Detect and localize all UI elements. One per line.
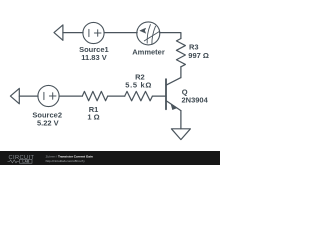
svg-text:http://circuitlab.com/c8hnu7y: http://circuitlab.com/c8hnu7y	[46, 159, 86, 163]
svg-text:LAB: LAB	[22, 159, 30, 163]
ground	[171, 129, 190, 140]
wire Ammeter to corner	[160, 33, 181, 39]
svg-text:5.22 V: 5.22 V	[37, 119, 59, 128]
svg-text:1 Ω: 1 Ω	[87, 113, 99, 122]
wire emitter to ground	[180, 111, 182, 129]
transistor Q (NPN 2N3904)	[165, 79, 167, 109]
svg-text:5.5 kΩ: 5.5 kΩ	[125, 81, 152, 90]
wire Source1 to Ammeter	[104, 32, 137, 34]
voltage source Source2	[38, 85, 59, 106]
ammeter AM1	[137, 22, 160, 45]
svg-text:997 Ω: 997 Ω	[188, 51, 209, 60]
svg-text:Ammeter: Ammeter	[132, 48, 165, 57]
wire Source2 to R1	[59, 95, 82, 97]
footer bar	[0, 151, 220, 165]
svg-text:2N3904: 2N3904	[182, 95, 209, 104]
resistor R1	[82, 91, 107, 100]
label Source1	[32, 45, 164, 128]
wire R2 to base	[152, 95, 166, 97]
svg-text:Zubren / Transistor Current Ga: Zubren / Transistor Current Gain	[46, 155, 93, 159]
wire flag1 to Source1	[63, 32, 83, 34]
node flag top-left	[54, 25, 63, 40]
resistor R3	[176, 39, 185, 67]
svg-text:11.83 V: 11.83 V	[81, 53, 106, 62]
resistor R2	[125, 91, 153, 100]
wire flag2 to Source2	[19, 95, 38, 97]
node flag bottom-left	[10, 88, 19, 103]
voltage source Source1	[83, 22, 104, 43]
CircuitLab logo	[8, 155, 35, 164]
wire R1 to R2	[108, 95, 125, 97]
wire R3 to collector	[180, 67, 182, 78]
